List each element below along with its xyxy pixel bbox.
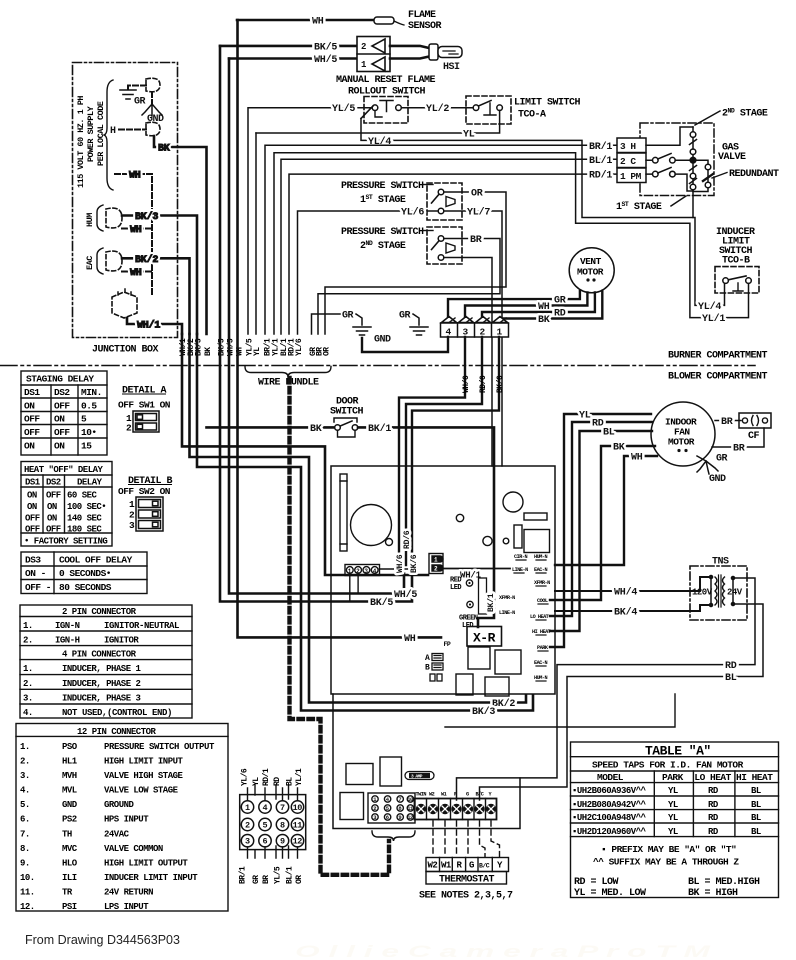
- svg-text:ON -: ON -: [25, 568, 46, 579]
- svg-text:VENT: VENT: [580, 256, 602, 267]
- wire BK/3: [122, 211, 197, 334]
- vent motor 4-pin connector: [441, 317, 509, 338]
- board small circle: [386, 539, 393, 546]
- svg-text:GR: GR: [342, 311, 354, 322]
- junction box power supply labels: [76, 96, 106, 188]
- board right components: [456, 492, 549, 553]
- svg-text:BK/6: BK/6: [410, 554, 419, 573]
- svg-text:INDUCER, PHASE 1: INDUCER, PHASE 1: [62, 664, 142, 674]
- svg-text:IGN-N: IGN-N: [55, 621, 80, 631]
- wire bundle brace: [245, 367, 331, 378]
- svg-text:VALVE LOW STAGE: VALVE LOW STAGE: [104, 786, 179, 796]
- svg-text:MIN.: MIN.: [81, 387, 102, 398]
- svg-text:INDUCER, PHASE 3: INDUCER, PHASE 3: [62, 694, 141, 704]
- compartment separator dash-dot line: [0, 365, 755, 367]
- svg-text:YL: YL: [253, 347, 262, 356]
- svg-text:W2: W2: [428, 861, 438, 871]
- svg-text:BL: BL: [751, 827, 761, 837]
- svg-text:B: B: [425, 664, 430, 673]
- svg-text:TH: TH: [62, 829, 72, 839]
- svg-text:7: 7: [280, 803, 285, 813]
- svg-text:YL/4: YL/4: [368, 136, 391, 148]
- ground pigtail GR right: [362, 311, 448, 353]
- svg-text:DETAIL A: DETAIL A: [122, 386, 167, 397]
- svg-text:24V RETURN: 24V RETURN: [104, 888, 153, 898]
- svg-text:2: 2: [373, 805, 376, 812]
- svg-text:BLOWER COMPARTMENT: BLOWER COMPARTMENT: [668, 372, 768, 383]
- svg-text:YL/5: YL/5: [332, 103, 355, 115]
- svg-text:WH/6: WH/6: [396, 554, 405, 573]
- svg-text:BK/3: BK/3: [472, 706, 495, 718]
- wire WH eac: [122, 268, 152, 279]
- svg-text:PRESSURE SWITCH: PRESSURE SWITCH: [341, 181, 424, 192]
- svg-text:5.: 5.: [20, 800, 30, 810]
- board big circle: [351, 505, 392, 546]
- svg-text:PS2: PS2: [62, 815, 77, 825]
- wire RD/1 to gas valve: [289, 170, 617, 334]
- inducer limit switch TCO-B: [715, 227, 759, 293]
- svg-text:PRESSURE SWITCH OUTPUT: PRESSURE SWITCH OUTPUT: [104, 742, 215, 752]
- svg-text:MVH: MVH: [62, 771, 77, 781]
- HUM label: [85, 205, 103, 231]
- svg-text:W1: W1: [441, 792, 447, 798]
- svg-text:BK: BK: [158, 144, 170, 155]
- svg-text:RD/1: RD/1: [589, 170, 612, 182]
- svg-text:5: 5: [263, 821, 268, 831]
- svg-text:60 SEC: 60 SEC: [67, 491, 98, 501]
- svg-text:3 H: 3 H: [620, 141, 636, 152]
- svg-text:BL: BL: [603, 428, 615, 439]
- svg-text:PER LOCAL CODE: PER LOCAL CODE: [96, 101, 106, 166]
- fan motor wire BK: [550, 443, 655, 601]
- vent motor wire BK: [499, 291, 602, 326]
- svg-text:YL/5: YL/5: [274, 866, 283, 884]
- svg-text:OFF SW1 ON: OFF SW1 ON: [118, 400, 171, 411]
- svg-text:GR: GR: [134, 97, 146, 108]
- svg-text:ON: ON: [54, 414, 65, 425]
- svg-text:OR: OR: [323, 347, 332, 356]
- svg-text:3 AMP: 3 AMP: [411, 774, 423, 780]
- svg-text:XFMR-N: XFMR-N: [499, 595, 515, 601]
- svg-text:WH/5: WH/5: [394, 589, 417, 601]
- fan motor wire BL: [550, 428, 652, 632]
- svg-text:BR: BR: [721, 417, 733, 428]
- svg-text:BK/3: BK/3: [135, 211, 158, 223]
- 2 pin / 4 pin connector table: [20, 605, 192, 718]
- wire WH/1 board: [443, 569, 510, 581]
- svg-text:W1: W1: [441, 861, 452, 871]
- limit switch TCO-A: [466, 96, 581, 124]
- svg-text:ROLLOUT SWITCH: ROLLOUT SWITCH: [348, 87, 426, 98]
- svg-text:MVC: MVC: [62, 844, 78, 854]
- terminal strip: [415, 792, 497, 820]
- wire WH hum: [122, 225, 152, 236]
- svg-text:TCO-B: TCO-B: [722, 256, 750, 267]
- svg-text:LINE-N: LINE-N: [499, 610, 515, 616]
- fan motor wire WH: [555, 453, 657, 566]
- svg-text:LIMIT SWITCH: LIMIT SWITCH: [514, 98, 581, 109]
- svg-text:BK/4: BK/4: [614, 607, 637, 619]
- svg-text:4.: 4.: [20, 786, 30, 796]
- svg-text:WH: WH: [312, 17, 324, 28]
- svg-text:DS1: DS1: [24, 387, 40, 398]
- wire WH/5: [229, 54, 357, 66]
- HSI igniter: [390, 44, 462, 73]
- wire RD to thermostat: [457, 578, 756, 800]
- svg-text:SPEED TAPS FOR I.D. FAN MOTOR: SPEED TAPS FOR I.D. FAN MOTOR: [592, 760, 744, 771]
- svg-text:G: G: [469, 861, 474, 871]
- svg-text:OFF: OFF: [46, 525, 61, 535]
- thermostat table: [426, 858, 509, 885]
- svg-text:8.: 8.: [20, 844, 30, 854]
- svg-text:IGNITOR-NEUTRAL: IGNITOR-NEUTRAL: [104, 621, 179, 631]
- wire across lower right: [445, 694, 675, 727]
- svg-text:WH/6: WH/6: [462, 375, 471, 393]
- board 4-pin block: [345, 565, 412, 602]
- svg-text:LO HEAT: LO HEAT: [694, 772, 731, 783]
- svg-text:• FACTORY SETTING: • FACTORY SETTING: [24, 537, 107, 547]
- svg-text:2.: 2.: [23, 679, 33, 689]
- svg-text:BK/5: BK/5: [314, 42, 337, 54]
- svg-text:MVL: MVL: [62, 786, 77, 796]
- svg-text:RD: RD: [708, 827, 719, 837]
- wire YL: [256, 111, 500, 141]
- wire BK/4: [555, 605, 709, 619]
- svg-text:WH: WH: [130, 268, 142, 279]
- svg-text:BK: BK: [310, 424, 322, 435]
- wire GR with ground: [120, 86, 164, 126]
- svg-text:PSO: PSO: [62, 742, 78, 752]
- svg-text:BURNER COMPARTMENT: BURNER COMPARTMENT: [668, 351, 768, 362]
- svg-text:YL: YL: [579, 411, 591, 422]
- svg-text:OFF: OFF: [46, 491, 61, 501]
- svg-text:RD = LOW: RD = LOW: [574, 877, 619, 888]
- svg-text:YL/7: YL/7: [467, 207, 490, 219]
- svg-text:DELAY: DELAY: [77, 478, 103, 488]
- wire BL to thermostat: [480, 604, 764, 800]
- svg-text:SWITCH: SWITCH: [330, 407, 364, 418]
- thermostat dashed drops: [433, 821, 500, 857]
- svg-text:DS2: DS2: [46, 478, 61, 488]
- svg-text:▪UH2B080A942V^^: ▪UH2B080A942V^^: [572, 800, 647, 810]
- vent motor: [569, 248, 614, 293]
- svg-text:2: 2: [126, 423, 132, 434]
- svg-text:9.: 9.: [20, 858, 30, 868]
- svg-text:OR: OR: [471, 189, 483, 200]
- svg-text:H: H: [110, 126, 116, 137]
- svg-text:YL/1: YL/1: [295, 768, 304, 786]
- svg-text:NOT USED,(CONTROL END): NOT USED,(CONTROL END): [62, 708, 172, 718]
- svg-text:ON: ON: [27, 502, 37, 512]
- svg-text:WH: WH: [404, 634, 416, 645]
- HSI 2-pin connector: [357, 37, 390, 72]
- wire BR: [318, 235, 500, 334]
- svg-text:YL = MED. LOW: YL = MED. LOW: [574, 888, 646, 899]
- svg-text:115 VOLT 60 HZ. 1 PH: 115 VOLT 60 HZ. 1 PH: [76, 96, 86, 188]
- svg-text:10: 10: [293, 803, 303, 813]
- manual reset flame rollout switch: [249, 75, 436, 123]
- svg-text:WH/4: WH/4: [614, 587, 637, 599]
- svg-text:WH: WH: [129, 171, 141, 182]
- door switch: [207, 397, 364, 438]
- svg-text:EAC: EAC: [85, 256, 95, 270]
- svg-text:RD: RD: [273, 777, 282, 786]
- svg-text:DS3: DS3: [25, 555, 41, 566]
- BK/1 board label and stripe: [479, 578, 497, 614]
- svg-text:BK/2: BK/2: [492, 698, 515, 710]
- svg-text:3.: 3.: [20, 771, 30, 781]
- svg-text:RD: RD: [708, 800, 719, 810]
- wire BR/1 to gas valve: [265, 141, 617, 334]
- board 2-pin D block: [429, 554, 443, 574]
- svg-text:BK = HIGH: BK = HIGH: [688, 888, 738, 899]
- svg-text:TR: TR: [62, 888, 73, 898]
- svg-text:O l l i e C a m e r a P r o: O l l i e C a m e r a P r o T M: [295, 942, 712, 960]
- board 12 pin connector: [368, 793, 415, 823]
- wire BL/1 to gas valve: [281, 155, 617, 334]
- svg-text:BR: BR: [733, 444, 745, 455]
- svg-text:YL/6: YL/6: [401, 207, 424, 219]
- svg-text:OFF: OFF: [25, 525, 40, 535]
- wire WH neutral: [115, 171, 152, 297]
- wire YL vertical: [255, 133, 257, 334]
- svg-text:2 PIN CONNECTOR: 2 PIN CONNECTOR: [62, 607, 137, 617]
- EAC plug: [106, 251, 122, 271]
- svg-text:MOTOR: MOTOR: [668, 437, 695, 448]
- svg-text:REDUNDANT: REDUNDANT: [729, 169, 779, 180]
- svg-text:SENSOR: SENSOR: [408, 21, 442, 32]
- svg-text:4 PIN CONNECTOR: 4 PIN CONNECTOR: [62, 650, 137, 660]
- svg-text:0 SECONDS•: 0 SECONDS•: [59, 568, 111, 579]
- svg-text:VALVE COMMON: VALVE COMMON: [104, 844, 163, 854]
- svg-text:HLO: HLO: [62, 858, 78, 868]
- svg-text:INDUCER, PHASE 2: INDUCER, PHASE 2: [62, 679, 141, 689]
- capacitor CF: [715, 413, 771, 442]
- svg-text:BL/1: BL/1: [286, 866, 295, 884]
- svg-text:9: 9: [280, 837, 285, 847]
- ground pigtail GR left: [312, 311, 392, 346]
- svg-text:CF: CF: [748, 431, 760, 442]
- svg-text:2.: 2.: [20, 757, 30, 767]
- svg-text:RD/6: RD/6: [403, 530, 412, 549]
- detail A: [118, 386, 171, 434]
- svg-text:HIGH LIMIT INPUT: HIGH LIMIT INPUT: [104, 757, 184, 767]
- svg-text:WH/1: WH/1: [137, 320, 160, 332]
- svg-text:YL: YL: [668, 800, 678, 810]
- plug H: [146, 122, 160, 136]
- svg-text:HPS INPUT: HPS INPUT: [104, 815, 149, 825]
- wire from 2nd stage lower terminal: [444, 258, 492, 467]
- svg-text:BL: BL: [751, 800, 761, 810]
- board terminal labels right: [499, 554, 551, 681]
- svg-text:COOL: COOL: [537, 598, 548, 604]
- svg-text:GR: GR: [716, 454, 728, 465]
- pressure switch 2nd stage: [341, 227, 462, 264]
- svg-text:1: 1: [129, 499, 135, 510]
- svg-text:HSI: HSI: [443, 62, 460, 73]
- svg-text:6: 6: [263, 837, 268, 847]
- wire YL/7: [444, 207, 502, 467]
- harness wire labels bottom: [239, 866, 305, 884]
- svg-text:YL/6: YL/6: [241, 768, 250, 786]
- svg-text:VALVE: VALVE: [718, 152, 746, 163]
- svg-text:180 SEC: 180 SEC: [67, 525, 102, 535]
- wire BK/2: [122, 254, 190, 334]
- svg-text:RD: RD: [708, 813, 719, 823]
- wire BK/2 run to board: [190, 334, 527, 703]
- svg-text:8: 8: [280, 821, 285, 831]
- svg-text:HUM-N: HUM-N: [534, 554, 547, 560]
- detail B: [118, 476, 173, 531]
- svg-text:OFF: OFF: [54, 401, 70, 412]
- svg-text:WH: WH: [631, 453, 643, 464]
- wire WH/1 run to board: [182, 334, 428, 575]
- gas valve labels: [616, 108, 779, 214]
- svg-text:ON: ON: [47, 502, 57, 512]
- svg-text:HUM-N: HUM-N: [534, 675, 547, 681]
- svg-text:BK/6: BK/6: [496, 375, 505, 393]
- svg-text:6.: 6.: [20, 815, 30, 825]
- svg-text:▪UH2D120A960V^^: ▪UH2D120A960V^^: [572, 827, 647, 837]
- svg-text:DS1: DS1: [25, 478, 41, 488]
- svg-text:WH/5: WH/5: [314, 54, 337, 66]
- wire BK/3 run to board: [197, 334, 533, 711]
- svg-text:BL: BL: [751, 786, 761, 796]
- svg-text:^^ SUFFIX MAY BE A THROUGH Z: ^^ SUFFIX MAY BE A THROUGH Z: [593, 857, 739, 868]
- svg-text:MODEL: MODEL: [597, 772, 624, 783]
- svg-text:BL: BL: [725, 673, 737, 684]
- svg-text:INDUCER LIMIT INPUT: INDUCER LIMIT INPUT: [104, 873, 198, 883]
- svg-text:1.: 1.: [20, 742, 30, 752]
- svg-text:LO HEAT: LO HEAT: [530, 614, 549, 620]
- svg-text:BR: BR: [262, 875, 271, 884]
- fan motor wire YL: [550, 411, 651, 648]
- fan motor ground: [697, 454, 728, 486]
- svg-text:HEAT "OFF" DELAY: HEAT "OFF" DELAY: [24, 465, 104, 475]
- svg-text:OR: OR: [295, 875, 304, 884]
- brace under 12 pin connector: [372, 831, 415, 841]
- svg-text:GROUND: GROUND: [104, 800, 135, 810]
- svg-text:24V: 24V: [727, 588, 743, 598]
- svg-text:100 SEC•: 100 SEC•: [67, 502, 106, 512]
- wire WH run: [238, 20, 442, 645]
- svg-text:LED: LED: [450, 584, 461, 592]
- HUM plug: [106, 208, 122, 228]
- svg-text:YL: YL: [668, 786, 678, 796]
- wire WH/4: [555, 577, 709, 599]
- A B connectors: [425, 654, 443, 682]
- bottom plug: [112, 288, 137, 318]
- svg-text:ON: ON: [24, 441, 35, 452]
- 12 pin harness connector graphic: [240, 785, 306, 858]
- fan motor wire RD: [550, 419, 652, 617]
- svg-text:ON: ON: [27, 491, 37, 501]
- svg-text:OFF -: OFF -: [25, 582, 51, 593]
- lower board rects: [340, 757, 402, 820]
- svg-text:YL: YL: [252, 777, 261, 786]
- heat off delay table: [21, 462, 112, 547]
- indoor fan motor: [651, 402, 715, 466]
- power supply brace: [104, 80, 113, 190]
- svg-text:YL/2: YL/2: [426, 103, 449, 115]
- svg-text:ON: ON: [47, 514, 57, 524]
- control board outline: [331, 466, 555, 694]
- transformer TNS: [690, 557, 747, 621]
- svg-text:BR: BR: [470, 235, 482, 246]
- board labels WH/6 BK/6 RD/6: [396, 530, 419, 573]
- svg-text:1.: 1.: [23, 664, 33, 674]
- vent motor wire WH: [465, 293, 587, 323]
- vent motor wire GR: [448, 291, 580, 322]
- svg-text:LINE-N: LINE-N: [512, 567, 528, 573]
- svg-text:GR: GR: [252, 875, 261, 884]
- svg-text:RD/1: RD/1: [262, 768, 271, 786]
- svg-text:TWIN: TWIN: [416, 792, 427, 798]
- table A: [571, 742, 779, 898]
- svg-text:BK/1: BK/1: [487, 593, 496, 612]
- svg-text:IGN-H: IGN-H: [55, 636, 80, 646]
- svg-text:VALVE HIGH STAGE: VALVE HIGH STAGE: [104, 771, 184, 781]
- board mid rects: [456, 647, 521, 696]
- green LED: [459, 601, 478, 630]
- svg-text:6: 6: [386, 814, 389, 821]
- svg-text:SEE NOTES 2,3,5,7: SEE NOTES 2,3,5,7: [419, 891, 513, 902]
- svg-text:X-R: X-R: [473, 631, 496, 646]
- svg-text:4.: 4.: [23, 708, 33, 718]
- svg-text:YL: YL: [463, 130, 475, 141]
- svg-text:XFMR-N: XFMR-N: [534, 580, 550, 586]
- svg-text:7: 7: [398, 796, 401, 803]
- svg-text:▪UH2C100A948V^^: ▪UH2C100A948V^^: [572, 813, 647, 823]
- wire YL/1: [274, 153, 749, 334]
- svg-text:BL/1: BL/1: [589, 155, 612, 167]
- fuse 3 AMP: [405, 772, 434, 780]
- svg-text:WH: WH: [130, 225, 142, 236]
- svg-text:GND: GND: [709, 474, 726, 485]
- staging delay table: [21, 371, 107, 455]
- svg-text:MOTOR: MOTOR: [577, 267, 604, 278]
- svg-text:12: 12: [407, 814, 413, 821]
- wire WH/5 run: [229, 59, 417, 602]
- flame sensor wire WH: [237, 17, 374, 28]
- svg-text:80 SECONDS: 80 SECONDS: [59, 582, 112, 593]
- svg-text:JUNCTION BOX: JUNCTION BOX: [92, 345, 159, 356]
- 12 pin connector table: [16, 724, 228, 912]
- svg-text:5: 5: [81, 414, 87, 425]
- svg-text:HL1: HL1: [62, 757, 78, 767]
- flame sensor: [374, 10, 442, 32]
- svg-text:BK: BK: [204, 347, 213, 356]
- X-R box: [467, 627, 502, 647]
- svg-text:11.: 11.: [20, 888, 35, 898]
- svg-text:10.: 10.: [20, 873, 35, 883]
- wire BK/5: [220, 42, 357, 54]
- wire BK/1: [358, 423, 494, 627]
- svg-text:TCO-A: TCO-A: [518, 110, 546, 121]
- svg-text:B/C: B/C: [479, 863, 490, 870]
- svg-text:BL: BL: [286, 777, 295, 786]
- svg-text:120V: 120V: [692, 588, 713, 598]
- svg-text:12: 12: [293, 837, 303, 847]
- svg-text:From Drawing D344563P03: From Drawing D344563P03: [25, 933, 180, 947]
- harness wire labels top: [241, 768, 305, 786]
- svg-text:9: 9: [398, 814, 401, 821]
- svg-text:OFF: OFF: [24, 427, 40, 438]
- wire H: [110, 126, 146, 137]
- wire bundle rotated labels: [179, 338, 332, 356]
- svg-text:RD/6: RD/6: [479, 375, 488, 393]
- svg-text:COOL OFF DELAY: COOL OFF DELAY: [59, 555, 133, 566]
